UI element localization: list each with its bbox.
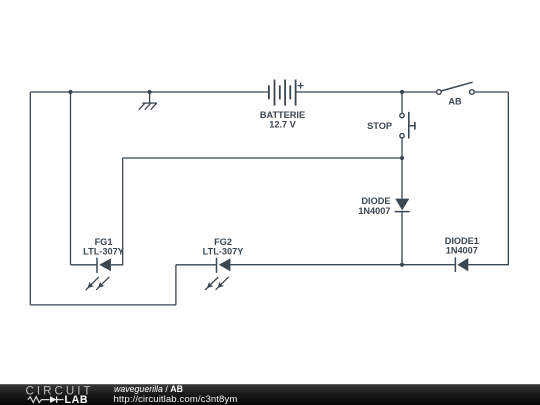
- wire right vertical down to diode row: [468, 92, 508, 265]
- diode DIODE (vertical, pointing down): [395, 199, 410, 212]
- svg-text:DIODE1: DIODE1: [445, 236, 479, 246]
- junction node below STOP: [400, 156, 404, 160]
- wire STOP bottom terminal to mid junction: [401, 138, 403, 158]
- wire bottom rail: [30, 304, 176, 306]
- wire FG1 anode to left branch: [71, 264, 98, 266]
- CircuitLab logo resistor zigzag: [28, 397, 50, 403]
- wire top rail left (node V+ to battery): [30, 91, 269, 93]
- diode DIODE1 (horizontal, pointing left): [455, 257, 468, 272]
- junction node diode center: [400, 263, 404, 267]
- wire vertical down to FG1 cathode side: [111, 158, 123, 265]
- svg-text:STOP: STOP: [367, 121, 392, 131]
- wire top rail right (battery to switch): [296, 91, 437, 93]
- svg-text:12.7 V: 12.7 V: [269, 119, 296, 129]
- wire mid rail left from mid junction: [123, 157, 402, 159]
- junction node above STOP: [400, 90, 404, 94]
- LED FG2 emission arrows: [205, 277, 229, 290]
- svg-text:1N4007: 1N4007: [358, 206, 390, 216]
- junction node at left branch: [68, 90, 72, 94]
- svg-text:DIODE: DIODE: [361, 196, 390, 206]
- svg-text:waveguerilla / AB: waveguerilla / AB: [114, 384, 183, 394]
- wire FG2 cathode side: [176, 264, 217, 266]
- wire DIODE1 cathode to center junction: [402, 264, 455, 266]
- svg-text:LTL-307Y: LTL-307Y: [203, 246, 244, 256]
- footer bar: [0, 384, 540, 405]
- svg-text:1N4007: 1N4007: [446, 246, 478, 256]
- wire FG2 anode to center junction: [230, 264, 402, 266]
- wire far left vertical from top rail: [29, 92, 31, 305]
- wire left branch vertical up to top rail: [70, 92, 72, 265]
- battery plus sign: [298, 83, 304, 89]
- CircuitLab logo diode: [50, 396, 57, 403]
- LED FG1 (pointing left): [97, 258, 111, 273]
- LED FG2 (pointing left): [217, 258, 231, 273]
- wire switch AB to right corner: [474, 91, 508, 93]
- wire mid junction down to DIODE anode: [401, 158, 403, 199]
- svg-text:http://circuitlab.com/c3nt8ym: http://circuitlab.com/c3nt8ym: [114, 394, 238, 405]
- svg-text:LTL-307Y: LTL-307Y: [83, 246, 124, 256]
- wire top junction to STOP top terminal: [401, 92, 403, 113]
- svg-text:AB: AB: [448, 97, 462, 107]
- wire DIODE cathode down to center junction: [401, 212, 403, 265]
- LED FG1 emission arrows: [86, 277, 110, 290]
- junction node at ground: [148, 90, 152, 94]
- svg-text:LAB: LAB: [65, 394, 89, 405]
- battery BAT1 plates: [269, 80, 296, 106]
- pushbutton STOP: [400, 112, 415, 139]
- ground symbol: [139, 92, 157, 110]
- switch AB: [437, 82, 475, 94]
- wire bottom riser to FG2: [175, 265, 177, 305]
